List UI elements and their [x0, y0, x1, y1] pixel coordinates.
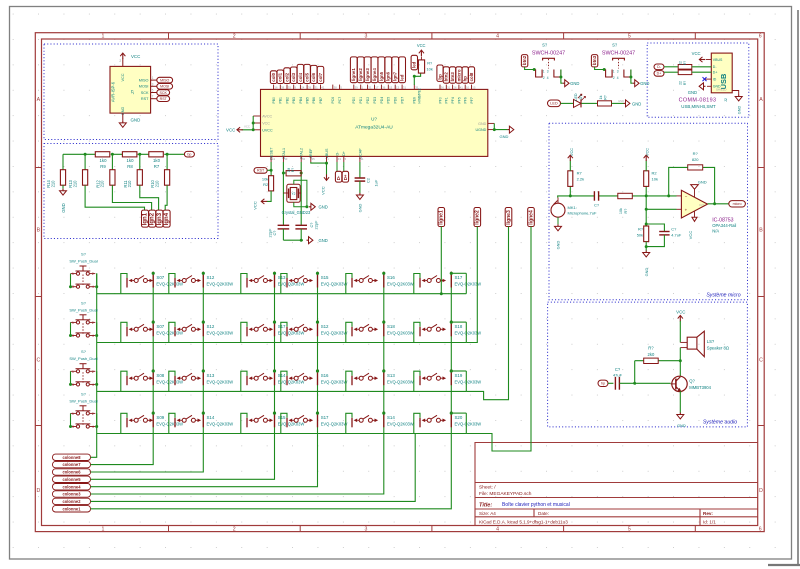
- resistor R5 22 on D+: [678, 70, 692, 75]
- global label ligne3 above pin PD2: [364, 57, 371, 83]
- switch S15 EVQ-Q2K03W: [246, 418, 248, 428]
- svg-text:1k0: 1k0: [127, 158, 135, 163]
- svg-text:AVCC: AVCC: [262, 115, 272, 119]
- svg-text:GND: GND: [688, 90, 697, 95]
- svg-text:R7: R7: [154, 164, 160, 169]
- svg-text:D+: D+: [657, 72, 662, 76]
- svg-text:col1: col1: [278, 72, 283, 81]
- connector J1 AVR-ISP-6: [110, 66, 151, 113]
- svg-text:EVQ-Q2K03W: EVQ-Q2K03W: [278, 379, 305, 384]
- svg-text:colonne8: colonne8: [63, 455, 82, 460]
- svg-text:2k0: 2k0: [648, 352, 655, 357]
- svg-text:VCC: VCC: [676, 310, 685, 315]
- global label lgn7 above pin PD6: [392, 57, 399, 83]
- svg-text:colonne1: colonne1: [63, 506, 82, 511]
- svg-text:5: 5: [628, 527, 631, 533]
- svg-text:GND: GND: [640, 81, 649, 86]
- svg-text:PD2: PD2: [366, 97, 370, 104]
- svg-text:S16: S16: [387, 275, 395, 280]
- svg-text:2: 2: [92, 321, 94, 325]
- junction nodes on bus: [84, 153, 87, 156]
- svg-text:col3: col3: [291, 72, 296, 81]
- svg-text:A: A: [37, 97, 41, 103]
- global label ligne1 above pin PD0: [350, 57, 357, 83]
- pin SHIELD of J2 to ground: [732, 91, 739, 95]
- svg-text:24: 24: [301, 86, 305, 90]
- svg-text:2: 2: [119, 59, 121, 63]
- wire AREF VBUS to VCC: [311, 162, 327, 175]
- svg-text:GND: GND: [698, 179, 707, 184]
- svg-text:EVQ-Q2K03W: EVQ-Q2K03W: [156, 421, 183, 426]
- wire VCC to speaker: [679, 321, 681, 343]
- svg-text:col4: col4: [298, 72, 303, 81]
- power symbol VCC at VBUS: [326, 174, 328, 180]
- global label col3 above pin PB3: [290, 67, 297, 84]
- svg-text:lgn4: lgn4: [164, 212, 170, 225]
- svg-text:25: 25: [312, 157, 316, 161]
- svg-text:R?: R?: [683, 81, 687, 85]
- wire crystal case to ground: [294, 180, 307, 207]
- svg-text:10k: 10k: [427, 66, 433, 71]
- wire hp to C7: [608, 382, 613, 384]
- svg-text:1: 1: [72, 321, 74, 325]
- svg-text:R2: R2: [652, 171, 658, 176]
- switch S13 EVQ-Q2K03W: [246, 278, 248, 288]
- ground below RC filter: [645, 251, 647, 253]
- wire R14 to ground: [62, 185, 64, 189]
- svg-text:C: C: [759, 358, 763, 364]
- wire colonne6 to matrix: [91, 434, 204, 473]
- global label hp above pin PF6: [462, 67, 468, 83]
- svg-text:SW_Push_Dual: SW_Push_Dual: [69, 356, 97, 361]
- svg-text:R?: R?: [638, 227, 644, 232]
- global label bp above pin PF0: [437, 65, 443, 81]
- global label colonne8: [53, 454, 91, 460]
- svg-text:5: 5: [152, 89, 154, 93]
- svg-text:S?: S?: [612, 43, 618, 48]
- wire XTAL1 branch: [282, 162, 284, 225]
- svg-text:36: 36: [441, 86, 445, 90]
- svg-text:PC7: PC7: [338, 97, 342, 104]
- svg-text:GND: GND: [644, 267, 649, 276]
- wire pins of S04: [71, 413, 97, 426]
- svg-text:10: 10: [466, 86, 470, 90]
- svg-text:Id: 1/1: Id: 1/1: [703, 519, 716, 524]
- svg-text:PB0: PB0: [272, 97, 276, 104]
- switch S09 EVQ-Q2K03W: [126, 418, 128, 428]
- resistor R12 10k bias: [645, 186, 647, 196]
- svg-text:Size: A4: Size: A4: [479, 511, 496, 516]
- svg-text:GND: GND: [500, 134, 509, 139]
- global label D- USB: [654, 64, 664, 70]
- wire bump row 2 col 2: [169, 322, 175, 342]
- svg-text:VCC: VCC: [226, 128, 235, 133]
- resistor R11 210: [139, 154, 141, 169]
- svg-text:SHIELD: SHIELD: [716, 88, 726, 92]
- ground below C2: [359, 193, 361, 195]
- svg-text:D+: D+: [342, 151, 346, 156]
- MCU bottom pin stubs: [271, 156, 360, 162]
- svg-text:3: 3: [364, 34, 367, 40]
- pin GND of J1: [122, 113, 124, 121]
- op-amp U2 OPA344: [681, 190, 707, 218]
- svg-text:38: 38: [281, 86, 285, 90]
- svg-text:C2: C2: [366, 178, 371, 183]
- matrix column wires: [97, 273, 452, 433]
- svg-text:15: 15: [472, 86, 476, 90]
- svg-text:2: 2: [92, 370, 94, 374]
- ground below Q1: [679, 413, 681, 415]
- svg-text:col8: col8: [469, 72, 474, 81]
- wire colonne4 to matrix: [91, 434, 318, 487]
- svg-text:btn2: btn2: [444, 72, 449, 82]
- wire MCU right pins to ground: [494, 123, 507, 129]
- svg-text:4: 4: [92, 334, 94, 338]
- svg-text:31: 31: [447, 86, 451, 90]
- svg-text:2: 2: [92, 272, 94, 276]
- svg-text:210: 210: [100, 180, 105, 188]
- resistor R7 1k0: [149, 152, 164, 157]
- ground at LED resistor: [624, 102, 626, 104]
- svg-text:R?: R?: [624, 209, 628, 214]
- resistor R12 210: [111, 154, 113, 169]
- svg-text:4: 4: [496, 34, 499, 40]
- svg-text:Rev:: Rev:: [703, 511, 713, 516]
- wire switch S6 to ground: [631, 70, 633, 84]
- wire switch S5 to ground: [561, 70, 563, 84]
- svg-text:S?: S?: [542, 43, 548, 48]
- svg-text:Boîte clavier python et musica: Boîte clavier python et musical: [502, 502, 570, 508]
- svg-text:SW_Push_Dual: SW_Push_Dual: [69, 398, 97, 403]
- svg-text:GND: GND: [358, 203, 363, 212]
- wire emitter to ground: [679, 391, 681, 413]
- svg-text:micro: micro: [456, 69, 461, 81]
- svg-text:PF6: PF6: [464, 97, 468, 103]
- capacitor C2 1uF on UCAP: [355, 177, 366, 179]
- svg-text:1k: 1k: [599, 95, 603, 99]
- svg-text:AVR-ISP-6: AVR-ISP-6: [111, 81, 116, 102]
- svg-text:EVQ-Q2K03W: EVQ-Q2K03W: [455, 379, 482, 384]
- svg-text:S?: S?: [81, 252, 87, 257]
- wire pins of S01: [71, 274, 97, 287]
- switch S17 EVQ-Q2K03W: [246, 327, 248, 337]
- svg-text:bp: bp: [437, 74, 442, 80]
- svg-text:3: 3: [547, 69, 549, 73]
- svg-text:S12: S12: [207, 324, 215, 329]
- svg-text:31: 31: [403, 86, 407, 90]
- title block: [475, 443, 758, 526]
- global label btn3 above pin PF4: [450, 67, 456, 83]
- svg-text:ligne3: ligne3: [506, 210, 512, 225]
- svg-text:VCC: VCC: [692, 51, 701, 56]
- svg-text:15: 15: [389, 86, 393, 90]
- wire bump row 3 col 4: [281, 371, 287, 391]
- svg-text:lgn3: lgn3: [157, 212, 163, 225]
- svg-text:Crystal_GND23: Crystal_GND23: [282, 210, 311, 215]
- svg-text:PF7: PF7: [470, 97, 474, 103]
- svg-text:S17: S17: [455, 275, 463, 280]
- pin GND of J2 to ground: [707, 85, 711, 87]
- global label col0 above pin PB0: [270, 71, 277, 84]
- svg-text:2: 2: [233, 34, 236, 40]
- global label col1 above pin PB1: [277, 70, 284, 84]
- svg-text:PD0: PD0: [352, 97, 356, 104]
- capacitor C6 4.7uF: [659, 231, 669, 233]
- ground at J2: [704, 85, 706, 87]
- global label micro: [729, 201, 746, 207]
- wire RST to RESET pin: [267, 162, 271, 176]
- switch S12 EVQ-Q2K03W: [174, 327, 176, 337]
- svg-text:Title:: Title:: [479, 502, 492, 508]
- svg-text:VCC: VCC: [262, 122, 270, 126]
- wire R13 to connector lgn1: [85, 185, 144, 210]
- global label btn2: [521, 55, 527, 67]
- svg-text:S18: S18: [387, 324, 395, 329]
- svg-text:COMM-08193: COMM-08193: [679, 98, 717, 104]
- svg-text:210: 210: [72, 180, 77, 188]
- switch S14 EVQ-Q2K03W: [351, 418, 353, 428]
- global label btn2 above pin PF1: [443, 67, 449, 83]
- wire XTAL2 branch: [300, 162, 302, 225]
- svg-text:S?: S?: [81, 349, 87, 354]
- global label lgn5 above pin PD4: [378, 57, 385, 83]
- wire colonne5 to matrix: [91, 434, 275, 480]
- svg-text:EVQ-Q2K03W: EVQ-Q2K03W: [156, 282, 183, 287]
- global label hp: [598, 380, 608, 386]
- svg-text:lgn1: lgn1: [142, 212, 148, 225]
- svg-text:Sheet: /: Sheet: /: [479, 484, 496, 490]
- global label D- at MCU: [336, 162, 338, 171]
- switch S07 EVQ-Q2K03W: [126, 327, 128, 337]
- svg-text:GND: GND: [738, 106, 742, 115]
- svg-text:11: 11: [361, 157, 364, 161]
- svg-text:LED: LED: [574, 93, 578, 101]
- svg-text:D: D: [759, 488, 763, 494]
- svg-text:VBUS: VBUS: [713, 58, 723, 62]
- switch S6 contacts: [606, 70, 613, 78]
- svg-text:PB7: PB7: [319, 97, 323, 104]
- ground below microphone: [557, 224, 559, 226]
- resistor R11 10k series: [618, 193, 633, 198]
- svg-text:RST: RST: [141, 97, 149, 101]
- global label col4 above pin PB4: [297, 64, 304, 83]
- svg-text:S07: S07: [156, 275, 164, 280]
- svg-text:VCC: VCC: [569, 148, 574, 156]
- wire row 3 end hook: [465, 371, 467, 391]
- capacitor C7 47uF: [614, 377, 616, 390]
- svg-text:PB2: PB2: [285, 97, 289, 104]
- switch S12 EVQ-Q2K03W: [286, 327, 288, 337]
- wire pins of S03: [71, 371, 97, 384]
- wire ligne4 to row 4: [466, 227, 531, 452]
- svg-text:EVQ-Q2K03W: EVQ-Q2K03W: [278, 282, 305, 287]
- svg-text:colonne3: colonne3: [63, 492, 82, 497]
- svg-text:GND: GND: [556, 240, 561, 249]
- svg-text:colonne5: colonne5: [63, 477, 82, 482]
- wire bump row 1 col 2: [169, 274, 175, 294]
- svg-text:MOSI: MOSI: [139, 85, 149, 89]
- wire bump row 4 col 1: [121, 413, 127, 433]
- wire R4 to J2 D-: [692, 66, 712, 68]
- svg-text:1M: 1M: [287, 167, 291, 172]
- svg-text:EVQ-Q2K03W: EVQ-Q2K03W: [156, 379, 183, 384]
- wire ligne1 to row 1: [440, 227, 442, 294]
- svg-text:17: 17: [375, 86, 379, 90]
- svg-text:1: 1: [72, 370, 74, 374]
- speaker LS1: [687, 337, 697, 349]
- svg-text:R?: R?: [427, 60, 433, 65]
- svg-text:10k: 10k: [619, 208, 623, 214]
- ground at J1: [122, 121, 124, 123]
- switch S13 EVQ-Q2K03W: [351, 376, 353, 386]
- wire bump row 1 col 3: [241, 274, 247, 294]
- svg-text:SW_Push_Dual: SW_Push_Dual: [69, 307, 97, 312]
- wire feedback to R13: [703, 167, 715, 203]
- svg-text:PB3: PB3: [292, 97, 296, 104]
- global label LED: [548, 100, 561, 107]
- wire caps to ground: [283, 239, 303, 241]
- svg-text:hp: hp: [463, 76, 468, 82]
- svg-text:micro: micro: [733, 202, 742, 206]
- global label lgn6 above pin PD5: [385, 57, 392, 83]
- svg-text:GND: GND: [319, 205, 328, 210]
- svg-text:ligne2: ligne2: [475, 210, 481, 225]
- svg-text:50k: 50k: [637, 233, 643, 238]
- wire R13 to inverting input: [669, 167, 688, 196]
- wire bump row 1 col 1: [121, 274, 127, 294]
- pin VBUS of J2 to VCC: [706, 59, 711, 61]
- wire bump row 1 col 5: [346, 274, 352, 294]
- svg-text:3: 3: [72, 425, 74, 429]
- wire audio signal line: [558, 196, 677, 198]
- svg-text:26: 26: [453, 86, 457, 90]
- svg-text:35: 35: [415, 86, 419, 90]
- svg-text:4: 4: [92, 285, 94, 289]
- svg-text:Microphone,7uF: Microphone,7uF: [568, 211, 597, 216]
- resistor R14 210: [62, 154, 64, 169]
- ground at S5: [563, 82, 565, 84]
- svg-text:4: 4: [617, 76, 619, 80]
- wire bump row 3 col 2: [169, 371, 175, 391]
- svg-text:R2: R2: [263, 182, 269, 187]
- svg-text:col0: col0: [271, 72, 276, 81]
- global label col6 above pin PB6: [311, 65, 318, 83]
- svg-text:colonne7: colonne7: [63, 462, 82, 467]
- svg-text:col6: col6: [311, 72, 316, 81]
- global label ligne2 at matrix: [474, 208, 481, 227]
- wire bump row 3 col 1: [121, 371, 127, 391]
- svg-text:USB,MINI-B,SMT: USB,MINI-B,SMT: [681, 104, 716, 109]
- svg-text:GND: GND: [570, 81, 579, 86]
- svg-text:GND: GND: [632, 101, 641, 106]
- global label colonne3: [53, 491, 91, 497]
- svg-text:ATmega32U4-AU: ATmega32U4-AU: [355, 125, 393, 131]
- wire R12 to connector lgn2: [112, 185, 151, 210]
- switch S07 EVQ-Q2K03W: [126, 278, 128, 288]
- global label btn3: [591, 55, 597, 67]
- svg-text:col2: col2: [284, 72, 289, 81]
- svg-text:EVQ-Q2K03W: EVQ-Q2K03W: [207, 330, 234, 335]
- svg-text:D?: D?: [579, 95, 583, 100]
- svg-text:210: 210: [50, 180, 55, 188]
- op-amp power pin GND: [694, 189, 696, 197]
- svg-text:4: 4: [92, 383, 94, 387]
- svg-text:S15: S15: [321, 275, 329, 280]
- svg-text:S12: S12: [321, 324, 329, 329]
- svg-text:S13: S13: [207, 373, 215, 378]
- capacitor C3 22pF at XTAL1: [278, 224, 290, 226]
- power symbol VCC above R10: [569, 156, 571, 162]
- wire mic to ground: [557, 217, 559, 224]
- global label bp: [184, 151, 194, 157]
- svg-text:2: 2: [543, 76, 545, 80]
- svg-text:C?: C?: [594, 203, 600, 208]
- svg-text:1: 1: [102, 527, 105, 533]
- power symbol VCC at J2: [700, 59, 706, 61]
- resistor R14 50k to ground: [644, 226, 649, 242]
- svg-text:SCK: SCK: [160, 91, 168, 95]
- svg-text:41: 41: [272, 157, 276, 161]
- svg-text:R?: R?: [291, 168, 295, 172]
- global label ligne3 vertical: [156, 210, 163, 227]
- svg-text:btn2: btn2: [522, 55, 527, 65]
- svg-text:PF0: PF0: [438, 97, 442, 103]
- svg-text:22: 22: [679, 61, 683, 65]
- global label MISO: [157, 77, 173, 83]
- svg-text:EVQ-Q2K03W: EVQ-Q2K03W: [321, 421, 348, 426]
- wire row 3 bottom: [97, 390, 467, 392]
- resistor R1 10k pull-up on PE6: [418, 60, 424, 73]
- wire R10 to connector lgn4: [165, 185, 167, 210]
- wire bump row 4 col 4: [281, 413, 287, 433]
- wire btn2 to switch: [525, 67, 536, 70]
- svg-text:ligne4: ligne4: [528, 210, 534, 225]
- svg-text:PB4: PB4: [299, 97, 303, 104]
- svg-text:ligne1: ligne1: [351, 68, 356, 81]
- dashed note box resistor network: [44, 144, 218, 239]
- svg-text:SW_Push_Dual: SW_Push_Dual: [69, 259, 97, 264]
- svg-text:EVQ-Q2K03W: EVQ-Q2K03W: [387, 282, 414, 287]
- svg-text:LED: LED: [550, 102, 558, 106]
- wire bump row 2 col 6: [414, 322, 420, 342]
- switch S18 EVQ-Q2K03W: [351, 327, 353, 337]
- wire bump row 3 col 6: [414, 371, 420, 391]
- global label RST: [254, 168, 267, 174]
- microphone MK1: [551, 203, 565, 217]
- svg-text:34: 34: [302, 157, 306, 161]
- switch S15 EVQ-Q2K03W: [286, 278, 288, 288]
- global label ligne2 vertical: [149, 210, 156, 227]
- svg-text:ID: ID: [713, 78, 717, 82]
- svg-text:1k0: 1k0: [100, 158, 108, 163]
- wire bump row 4 col 6: [414, 413, 420, 433]
- global label col2 above pin PB2: [284, 68, 291, 84]
- MCU bottom pin numbers: [272, 157, 364, 161]
- capacitor C4 22pF at XTAL2: [295, 224, 307, 226]
- op-amp power pin VCC: [694, 211, 696, 217]
- svg-text:KiCad E.D.A. kicad 5.1.9+dfsg: KiCad E.D.A. kicad 5.1.9+dfsg1-1+deb11u3: [479, 519, 568, 524]
- svg-text:1k0: 1k0: [153, 158, 161, 163]
- svg-text:38: 38: [334, 86, 338, 90]
- svg-text:EVQ-Q2K03W: EVQ-Q2K03W: [321, 379, 348, 384]
- global label led above pin PD7: [399, 57, 406, 83]
- svg-text:VCC: VCC: [244, 124, 250, 128]
- MCU U1 ATmega32U4-AU body: [261, 89, 488, 156]
- svg-text:1uF: 1uF: [374, 179, 379, 186]
- svg-text:31: 31: [368, 86, 372, 90]
- power symbol VCC at J1: [122, 54, 124, 60]
- svg-text:6: 6: [759, 527, 762, 533]
